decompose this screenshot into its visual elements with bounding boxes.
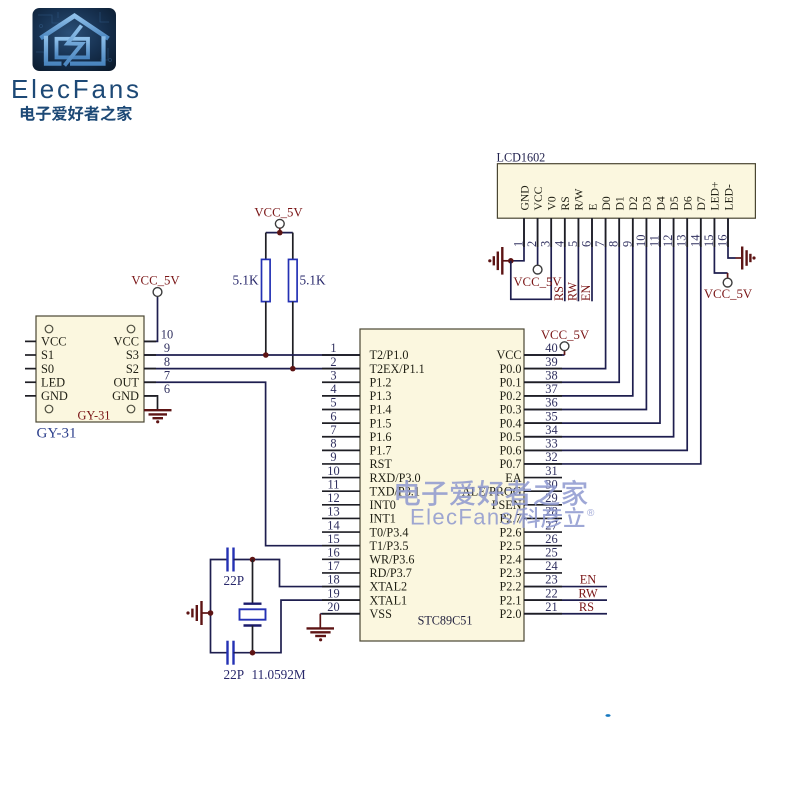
wire LCD pin4 RS stub bbox=[564, 218, 566, 301]
svg-text:GND: GND bbox=[518, 185, 531, 210]
svg-text:P0.7: P0.7 bbox=[499, 457, 521, 471]
svg-text:P2.4: P2.4 bbox=[499, 553, 521, 567]
svg-text:T0/P3.4: T0/P3.4 bbox=[370, 525, 409, 539]
svg-text:9: 9 bbox=[330, 450, 336, 464]
svg-text:P0.0: P0.0 bbox=[499, 362, 521, 376]
svg-text:13: 13 bbox=[327, 505, 339, 519]
svg-text:40: 40 bbox=[545, 341, 557, 355]
wire STC pin21 to net RS bbox=[524, 613, 607, 615]
wire node A to STC XTAL2 pin18 bbox=[253, 560, 361, 587]
svg-text:31: 31 bbox=[545, 464, 557, 478]
svg-text:5.1K: 5.1K bbox=[300, 273, 326, 288]
svg-text:EN: EN bbox=[579, 285, 593, 301]
power VCC_5V at LCD pin 2 bbox=[513, 218, 562, 289]
svg-text:P1.7: P1.7 bbox=[370, 444, 392, 458]
svg-text:GND: GND bbox=[112, 389, 139, 403]
junction crystal left rail at ground tap bbox=[208, 610, 214, 616]
pin numbers STC right 40-21 bbox=[545, 341, 557, 614]
svg-text:VCC_5V: VCC_5V bbox=[131, 274, 180, 288]
ground at VSS bbox=[307, 628, 335, 641]
svg-text:10: 10 bbox=[161, 328, 173, 342]
svg-text:11.0592M: 11.0592M bbox=[252, 667, 306, 682]
pin numbers GY-31 right 10,9,8,7,6 bbox=[161, 328, 173, 397]
wire D5 (LCD pin12) to STC P0.5 bbox=[524, 218, 674, 437]
svg-text:D6: D6 bbox=[682, 196, 695, 210]
svg-text:S0: S0 bbox=[41, 362, 54, 376]
pin numbers LCD 1-16 (rotated) bbox=[512, 235, 730, 247]
capacitor C2 22P (bottom) bbox=[228, 641, 234, 665]
resistor R1 5.1K bbox=[262, 233, 271, 355]
svg-text:22: 22 bbox=[545, 586, 557, 600]
junction R2 bottom on S2 wire bbox=[290, 366, 296, 372]
crystal Y1 bbox=[240, 560, 266, 653]
svg-text:V0: V0 bbox=[546, 196, 559, 210]
svg-text:12: 12 bbox=[327, 491, 339, 505]
svg-text:35: 35 bbox=[545, 409, 557, 423]
svg-text:S2: S2 bbox=[126, 362, 139, 376]
logo text dianzi aihaozhe zhi jia bbox=[21, 106, 132, 121]
svg-text:VCC_5V: VCC_5V bbox=[541, 328, 590, 342]
wire STC pin23 to net EN bbox=[524, 586, 607, 588]
svg-text:P0.2: P0.2 bbox=[499, 389, 521, 403]
svg-text:16: 16 bbox=[327, 546, 339, 560]
svg-text:39: 39 bbox=[545, 355, 557, 369]
svg-text:S1: S1 bbox=[41, 348, 54, 362]
svg-text:25: 25 bbox=[545, 546, 557, 560]
svg-text:P0.6: P0.6 bbox=[499, 444, 521, 458]
svg-text:4: 4 bbox=[330, 382, 336, 396]
capacitor C1 22P (top) bbox=[228, 548, 234, 572]
svg-text:D5: D5 bbox=[668, 196, 681, 210]
pin stubs GY-31 left (VCC,S1,S0,LED,GND) bbox=[25, 341, 36, 395]
svg-text:INT0: INT0 bbox=[370, 498, 396, 512]
wire S2 (GY-31 pin8) to STC pin2 T2EX/P1.1 bbox=[144, 368, 360, 370]
svg-text:LCD1602: LCD1602 bbox=[497, 151, 546, 165]
svg-text:XTAL2: XTAL2 bbox=[370, 580, 408, 594]
svg-text:23: 23 bbox=[545, 573, 557, 587]
pin stubs LCD pins 1-16 (black pin segments) bbox=[524, 218, 728, 247]
wire D2 (LCD pin9) to STC P0.2 bbox=[524, 218, 633, 396]
svg-text:D7: D7 bbox=[695, 196, 708, 210]
wire C2 right to crystal node B bbox=[234, 652, 253, 654]
svg-text:P1.4: P1.4 bbox=[370, 403, 392, 417]
wire LCD pin1 GND to ground bbox=[511, 218, 524, 261]
wire node B to STC XTAL1 pin19 bbox=[253, 600, 361, 653]
svg-text:P2.0: P2.0 bbox=[499, 607, 521, 621]
svg-text:P1.2: P1.2 bbox=[370, 375, 392, 389]
svg-text:26: 26 bbox=[545, 532, 557, 546]
svg-text:18: 18 bbox=[327, 573, 339, 587]
svg-text:INT1: INT1 bbox=[370, 512, 396, 526]
wire LCD pin5 RW stub bbox=[577, 218, 579, 301]
svg-text:VCC_5V: VCC_5V bbox=[254, 206, 303, 220]
wire OUT (GY-31 pin7) to STC pin15 T1/P3.5 bbox=[144, 382, 360, 545]
svg-text:17: 17 bbox=[327, 559, 339, 573]
svg-text:VCC: VCC bbox=[114, 335, 139, 349]
svg-text:22P: 22P bbox=[224, 667, 245, 682]
svg-text:33: 33 bbox=[545, 437, 557, 451]
svg-text:WR/P3.6: WR/P3.6 bbox=[370, 553, 415, 567]
svg-text:5: 5 bbox=[330, 396, 336, 410]
svg-text:RD/P3.7: RD/P3.7 bbox=[370, 566, 412, 580]
wire STC pin20 VSS to ground bbox=[320, 613, 360, 615]
svg-text:E: E bbox=[586, 203, 599, 210]
pin stubs STC left connected pins (black pin segments) bbox=[322, 355, 360, 614]
svg-text:10: 10 bbox=[327, 464, 339, 478]
svg-text:GY-31: GY-31 bbox=[77, 409, 110, 423]
wire D3 (LCD pin10) to STC P0.3 bbox=[524, 218, 646, 409]
svg-text:LED-: LED- bbox=[722, 184, 735, 211]
svg-text:21: 21 bbox=[545, 600, 557, 614]
svg-text:RXD/P3.0: RXD/P3.0 bbox=[370, 471, 421, 485]
svg-text:GND: GND bbox=[41, 389, 68, 403]
svg-text:19: 19 bbox=[327, 586, 339, 600]
svg-text:LED: LED bbox=[41, 375, 65, 389]
svg-text:T1/P3.5: T1/P3.5 bbox=[370, 539, 409, 553]
svg-text:1: 1 bbox=[330, 341, 336, 355]
svg-text:32: 32 bbox=[545, 450, 557, 464]
svg-text:RS: RS bbox=[552, 286, 566, 301]
svg-text:P0.5: P0.5 bbox=[499, 430, 521, 444]
svg-text:P1.6: P1.6 bbox=[370, 430, 392, 444]
svg-text:RS: RS bbox=[579, 600, 594, 614]
pin stubs STC right connected pins (black pin segments) bbox=[524, 355, 562, 614]
power VCC_5V at STC pin 40 bbox=[524, 328, 590, 355]
svg-text:9: 9 bbox=[164, 341, 170, 355]
wire STC pin22 to net RW bbox=[524, 599, 607, 601]
svg-text:EN: EN bbox=[580, 573, 597, 587]
LCD module LCD1602 bbox=[497, 164, 755, 219]
ground at LCD pin 16 bbox=[736, 247, 756, 270]
svg-text:ElecFans: ElecFans bbox=[11, 74, 142, 104]
svg-text:6: 6 bbox=[164, 382, 170, 396]
svg-text:D3: D3 bbox=[641, 196, 654, 210]
svg-text:22P: 22P bbox=[224, 573, 245, 588]
junction node B (XTAL1) bbox=[250, 650, 256, 656]
pin stubs GY-31 right pins (black pin segments) bbox=[144, 341, 156, 395]
wire D4 (LCD pin11) to STC P0.4 bbox=[524, 218, 660, 423]
svg-text:6: 6 bbox=[330, 409, 336, 423]
svg-text:11: 11 bbox=[328, 477, 340, 491]
svg-text:37: 37 bbox=[545, 382, 557, 396]
svg-text:P2.3: P2.3 bbox=[499, 566, 521, 580]
junction at VCC rail bbox=[277, 230, 283, 236]
wire LCD pin3 V0 loop to GND net bbox=[511, 218, 551, 299]
junction node A (XTAL2) bbox=[250, 557, 256, 563]
junction R1 bottom on S3 wire bbox=[263, 352, 269, 358]
svg-text:8: 8 bbox=[164, 355, 170, 369]
svg-text:24: 24 bbox=[545, 559, 557, 573]
svg-text:P2.2: P2.2 bbox=[499, 580, 521, 594]
pin stubs STC right unconnected pins 31-24 bbox=[524, 478, 562, 573]
svg-text:D0: D0 bbox=[600, 196, 613, 210]
svg-text:RST: RST bbox=[370, 457, 393, 471]
wire LCD pin16 LED- to ground bbox=[728, 218, 736, 258]
svg-text:VCC: VCC bbox=[41, 335, 66, 349]
svg-text:RW: RW bbox=[578, 586, 598, 600]
wire VCC rail between resistor tops bbox=[266, 232, 293, 234]
svg-text:34: 34 bbox=[545, 423, 557, 437]
svg-text:T2EX/P1.1: T2EX/P1.1 bbox=[370, 362, 425, 376]
svg-text:P1.5: P1.5 bbox=[370, 416, 392, 430]
svg-text:RW: RW bbox=[565, 282, 579, 301]
logo ElecFans icon bbox=[33, 8, 117, 71]
svg-text:VCC_5V: VCC_5V bbox=[704, 287, 753, 301]
svg-text:P0.3: P0.3 bbox=[499, 403, 521, 417]
junction LCD pin1/V0 bbox=[508, 258, 514, 264]
svg-text:7: 7 bbox=[330, 423, 336, 437]
watermark line 1 bbox=[396, 480, 587, 506]
wire D0 (LCD pin7) to STC P0.0 bbox=[524, 218, 606, 368]
svg-text:20: 20 bbox=[327, 600, 339, 614]
svg-text:D1: D1 bbox=[614, 196, 627, 210]
svg-text:R/W: R/W bbox=[573, 189, 586, 211]
wire D1 (LCD pin8) to STC P0.1 bbox=[524, 218, 619, 382]
wire left rail connecting C1 and C2 bbox=[211, 560, 228, 653]
svg-text:GY-31: GY-31 bbox=[37, 426, 77, 442]
svg-text:LED+: LED+ bbox=[709, 181, 722, 210]
svg-text:S3: S3 bbox=[126, 348, 139, 362]
resistor R2 5.1K bbox=[289, 233, 298, 369]
svg-text:XTAL1: XTAL1 bbox=[370, 593, 408, 607]
ground at LCD pin 1 bbox=[488, 247, 511, 275]
power VCC_5V at LCD pin 15 LED+ bbox=[704, 218, 753, 301]
svg-text:36: 36 bbox=[545, 396, 557, 410]
IC U2 STC89C51 microcontroller bbox=[360, 329, 524, 641]
svg-text:38: 38 bbox=[545, 368, 557, 382]
svg-text:®: ® bbox=[587, 508, 595, 519]
pin numbers STC left 1-20 bbox=[327, 341, 339, 614]
svg-text:VSS: VSS bbox=[370, 607, 393, 621]
svg-text:P0.1: P0.1 bbox=[499, 375, 521, 389]
svg-text:RS: RS bbox=[559, 196, 572, 210]
svg-text:2: 2 bbox=[330, 355, 336, 369]
svg-text:EA: EA bbox=[505, 471, 521, 485]
svg-text:VCC: VCC bbox=[532, 186, 545, 210]
watermark line 2 bbox=[410, 505, 595, 530]
svg-text:D2: D2 bbox=[627, 196, 640, 210]
ground at GY-31 GND pin 6 bbox=[144, 396, 172, 424]
svg-text:8: 8 bbox=[330, 437, 336, 451]
svg-text:P1.3: P1.3 bbox=[370, 389, 392, 403]
wire D7 (LCD pin14) to STC P0.7 bbox=[524, 218, 701, 464]
svg-text:5.1K: 5.1K bbox=[232, 273, 258, 288]
artifact blue dot bbox=[605, 714, 610, 717]
wire C1 right to crystal node A bbox=[234, 559, 253, 561]
svg-text:VCC: VCC bbox=[496, 348, 521, 362]
IC U1 GY-31 color sensor bbox=[36, 316, 144, 422]
power VCC_5V at GY-31 VCC pin 10 bbox=[131, 274, 180, 342]
wire D6 (LCD pin13) to STC P0.6 bbox=[524, 218, 687, 450]
svg-text:P0.4: P0.4 bbox=[499, 416, 521, 430]
svg-text:STC89C51: STC89C51 bbox=[418, 614, 473, 628]
svg-text:D4: D4 bbox=[654, 196, 667, 210]
svg-text:7: 7 bbox=[164, 368, 170, 382]
svg-text:OUT: OUT bbox=[114, 375, 140, 389]
svg-text:3: 3 bbox=[330, 368, 336, 382]
svg-text:T2/P1.0: T2/P1.0 bbox=[370, 348, 409, 362]
svg-text:ElecFans/: ElecFans/ bbox=[410, 505, 520, 530]
wire LCD pin6 EN stub bbox=[591, 218, 593, 301]
power VCC_5V feeding pull-up resistors bbox=[254, 206, 303, 233]
svg-text:14: 14 bbox=[327, 518, 339, 532]
ground at crystal left rail bbox=[186, 601, 210, 625]
svg-text:15: 15 bbox=[327, 532, 339, 546]
svg-text:P2.5: P2.5 bbox=[499, 539, 521, 553]
wire S3 (GY-31 pin9) to STC pin1 T2/P1.0 bbox=[144, 354, 360, 356]
pin stubs STC left unconnected pins bbox=[322, 382, 360, 573]
svg-text:P2.1: P2.1 bbox=[499, 593, 521, 607]
